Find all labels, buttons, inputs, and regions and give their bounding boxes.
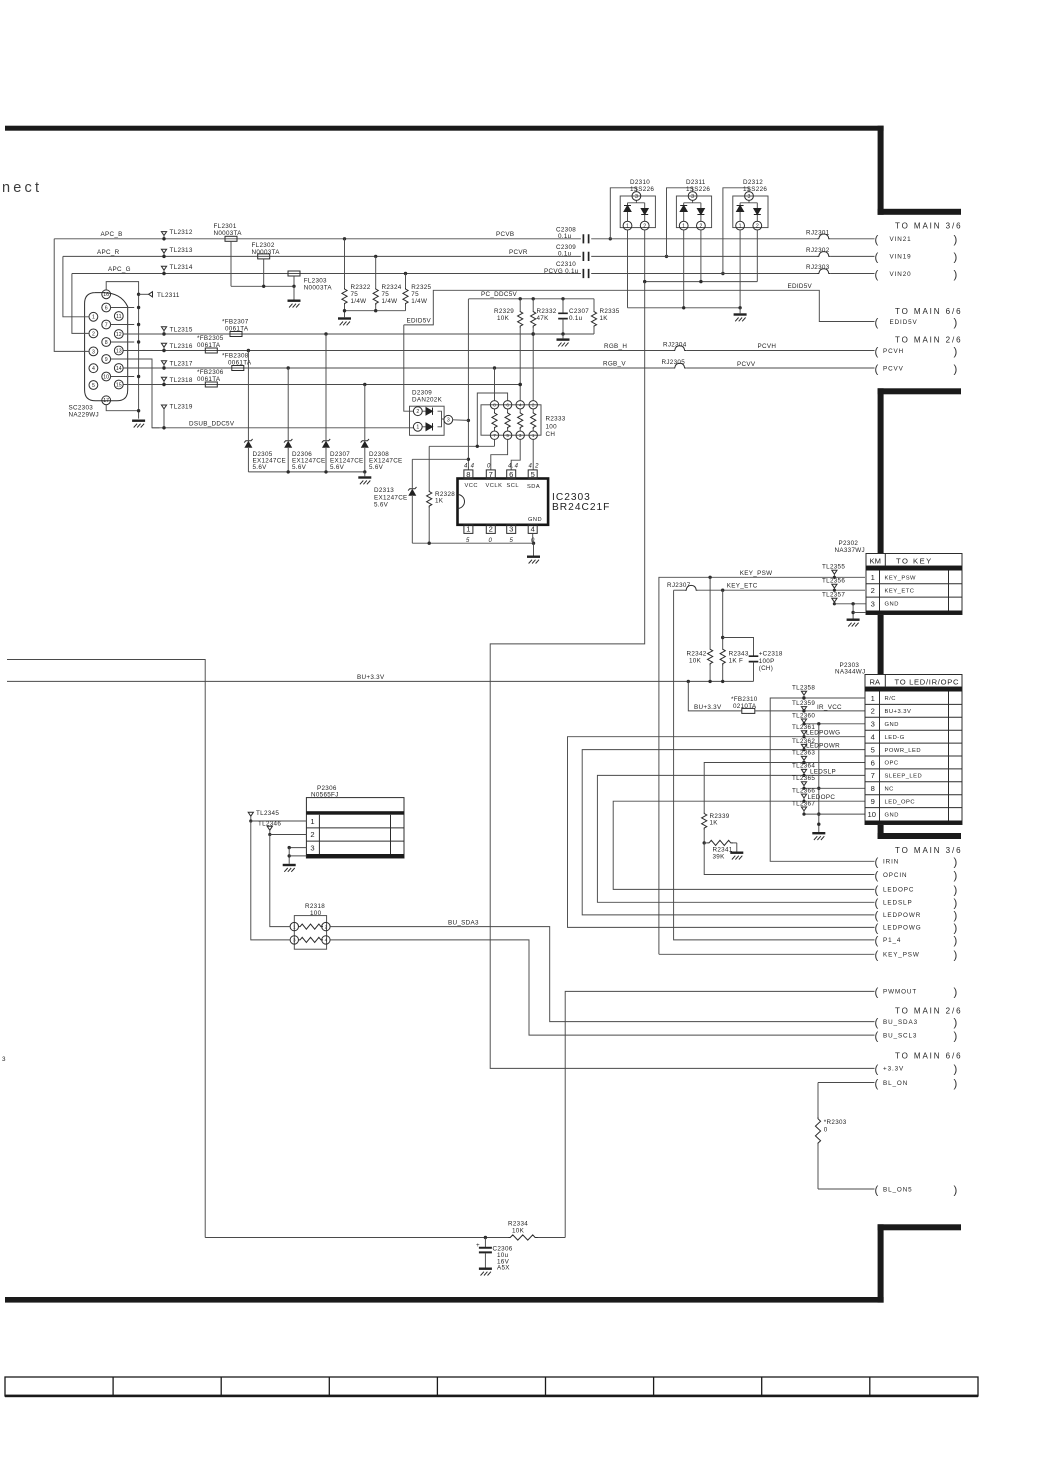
svg-text:*R2303: *R2303 [824, 1119, 847, 1126]
ferrite bead FB2307 0061TA [230, 332, 242, 337]
svg-text:TL2367: TL2367 [792, 800, 815, 807]
wire row pin13 RGB_H [123, 349, 673, 352]
svg-text:10: 10 [867, 810, 875, 819]
svg-text:4: 4 [92, 366, 95, 372]
svg-text:N0003TA: N0003TA [252, 249, 281, 256]
wire P2306 pin2 row [270, 834, 307, 836]
svg-text:(: ( [875, 910, 879, 922]
test point TL2315 [161, 327, 166, 336]
svg-text:CH: CH [546, 431, 556, 438]
svg-text:GND: GND [885, 812, 899, 818]
jumper RJ2304 [673, 346, 686, 351]
svg-text:1K: 1K [710, 820, 719, 827]
D-sub pin 7 [102, 320, 111, 329]
filter FL2301 N0003TA [225, 236, 237, 286]
wire FL common bus to ground [231, 285, 296, 300]
wire EDID5V drop to D2309 pin2 [404, 325, 414, 411]
capacitor C2309 0.1u (series in PCVR) [583, 252, 817, 261]
svg-text:TO MAIN 3/6: TO MAIN 3/6 [895, 221, 962, 230]
IC2303 pin 4 [528, 525, 537, 534]
ground (R2322) [338, 317, 351, 325]
test point TL2365 [801, 782, 806, 790]
node EDID5V stub [875, 317, 958, 329]
svg-text:TL2316: TL2316 [170, 343, 193, 350]
svg-text:1: 1 [92, 315, 95, 321]
node LEDPOWR stub [875, 910, 958, 922]
svg-text:LEDPOWG: LEDPOWG [883, 925, 922, 932]
node PCVH stub [875, 346, 958, 358]
svg-text:1/4W: 1/4W [411, 298, 427, 305]
ground (C2307) [557, 338, 570, 346]
connector P2302 NA337WJ (TO KEY table) [866, 554, 962, 615]
wire KEY_PSW [659, 576, 865, 955]
resistor R2325 75 1/4W [403, 274, 408, 311]
svg-text:RGB_H: RGB_H [604, 343, 627, 350]
wire R2333 col3 bottom to IC pin6 [511, 439, 520, 470]
capacitor C2308 0.1u (series in PCVB) [583, 234, 817, 243]
svg-text:2: 2 [756, 223, 759, 229]
svg-text:VCC: VCC [465, 483, 479, 489]
capacitor C2307 0.1u [558, 299, 568, 334]
svg-text:RJ2303: RJ2303 [806, 264, 830, 271]
wire R2334 row [205, 1236, 565, 1239]
svg-text:N0003TA: N0003TA [304, 284, 333, 291]
svg-text:100P: 100P [759, 658, 775, 665]
svg-text:4: 4 [531, 525, 535, 534]
node VIN20 stub [875, 269, 958, 281]
test point TL2360 [801, 719, 806, 725]
svg-text:11: 11 [116, 314, 121, 320]
svg-text:5.6V: 5.6V [374, 502, 389, 509]
svg-text:R2342: R2342 [687, 651, 707, 658]
wire D2312 pin3 loop to PCVG [723, 188, 749, 274]
wire RJ2303 to VIN20 stub [830, 273, 874, 275]
test point TL2366 [801, 794, 806, 803]
svg-text:BU+3.3V: BU+3.3V [357, 674, 385, 681]
wire LEDOPC loop (P2303 pin9 to stub) [613, 801, 874, 889]
IC2303 pin voltage annotations (top) [464, 463, 539, 469]
ground (FL filters) [288, 300, 301, 308]
wire zener bottom tie [248, 470, 366, 476]
D-sub connector SC2303 shell outline [85, 293, 128, 401]
svg-text:5: 5 [506, 433, 509, 438]
zener D2305 EX1247CE 5.6V [244, 351, 252, 472]
IC2303 pin 5 [528, 470, 537, 479]
svg-text:VIN21: VIN21 [890, 236, 912, 243]
svg-text:8: 8 [466, 470, 470, 479]
svg-text:(: ( [875, 1184, 879, 1196]
test point TL2361 [801, 731, 806, 739]
test point TL2357 [832, 598, 837, 605]
svg-text:EX1247CE: EX1247CE [374, 495, 408, 502]
svg-text:(CH): (CH) [759, 665, 774, 672]
D-sub pin 2 [89, 329, 98, 338]
svg-text:): ) [954, 923, 958, 935]
resistor R2303 0 [815, 1083, 820, 1190]
svg-text:6: 6 [871, 758, 875, 767]
R2333 pin 8 (top) [490, 401, 498, 409]
sheet frame right vertical (mid, above TO KEY table) [878, 388, 884, 553]
R2318 pin 1 [290, 922, 298, 930]
svg-text:TL2362: TL2362 [792, 738, 815, 745]
svg-text:(: ( [875, 252, 879, 264]
svg-text:3: 3 [748, 194, 751, 200]
resistor R2343 1K F [720, 590, 725, 681]
D-sub pin 16 [102, 290, 111, 299]
svg-text:BR24C21F: BR24C21F [552, 502, 610, 513]
svg-text:R2318: R2318 [305, 903, 325, 910]
svg-text:0061TA: 0061TA [197, 376, 221, 383]
svg-text:PCVR: PCVR [509, 249, 528, 256]
test point TL2314 [161, 266, 166, 275]
svg-text:13: 13 [116, 348, 122, 354]
svg-text:1K F: 1K F [729, 658, 744, 665]
svg-text:TL2359: TL2359 [792, 700, 815, 707]
wire D2309 pin3 to VCC rail [453, 419, 469, 422]
svg-text:PCVV: PCVV [883, 365, 904, 372]
svg-text:7: 7 [493, 433, 496, 438]
svg-text:(: ( [875, 346, 879, 358]
svg-text:TL2356: TL2356 [822, 578, 845, 585]
svg-text:(: ( [875, 234, 879, 246]
node VIN21 stub [875, 234, 958, 246]
svg-text:OPC: OPC [885, 761, 899, 767]
svg-text:3: 3 [310, 843, 314, 852]
svg-text:KEY_ETC: KEY_ETC [885, 589, 915, 595]
svg-text:BU_SDA3: BU_SDA3 [883, 1019, 918, 1026]
sheet frame right vertical (top) [878, 126, 884, 215]
svg-text:TL2319: TL2319 [170, 404, 193, 411]
svg-text:(: ( [875, 950, 879, 962]
R2333 pin 3 (bottom) [516, 431, 524, 439]
svg-text:1: 1 [293, 924, 296, 929]
svg-text:KEY_PSW: KEY_PSW [885, 576, 917, 582]
svg-text:): ) [954, 910, 958, 922]
svg-text:POWR_LED: POWR_LED [885, 748, 922, 754]
wire PCVH to connector stub [686, 350, 874, 352]
sheet frame bottom thick bar [5, 1297, 884, 1303]
svg-text:1/4W: 1/4W [382, 298, 398, 305]
svg-text:PCVH: PCVH [758, 343, 777, 350]
svg-text:0061TA: 0061TA [197, 342, 221, 349]
node IRIN stub [875, 857, 958, 869]
svg-text:BU+3.3V: BU+3.3V [694, 704, 722, 711]
svg-text:D2313: D2313 [374, 487, 394, 494]
svg-text:TL2345: TL2345 [256, 810, 279, 817]
svg-text:1: 1 [739, 223, 742, 229]
svg-text:+: + [476, 1242, 480, 1249]
wire IC2303 pin4 GND stub [532, 533, 534, 543]
D-sub pin 8 [102, 338, 111, 347]
R2333 pin 1 (bottom) [529, 431, 537, 439]
jumper RJ2305 [673, 363, 686, 368]
svg-text:5: 5 [466, 538, 470, 544]
svg-text:BL_ON5: BL_ON5 [883, 1186, 913, 1193]
wire IR_VCC row to P2303 pin2 [755, 709, 865, 712]
svg-text:(: ( [875, 935, 879, 947]
svg-text:DAN202K: DAN202K [412, 397, 443, 404]
ground (C2306) [479, 1268, 492, 1276]
ferrite bead FB2305 0061TA [205, 348, 217, 353]
wire GND tie under IC2303 [412, 542, 535, 556]
ferrite bead FB2310 0210TA [742, 708, 755, 713]
svg-text:TL2355: TL2355 [822, 564, 845, 571]
svg-text:APC_G: APC_G [108, 266, 131, 273]
wire P1_4 (KEY_ETC to stub) [674, 590, 875, 940]
IC U IC2303 BR24C21F (EEPROM) [458, 479, 549, 525]
svg-text:5: 5 [871, 745, 875, 754]
R2333 pin 7 (bottom) [490, 431, 498, 439]
wire APC_R / PCVR row [63, 255, 668, 258]
svg-text:100: 100 [310, 910, 322, 917]
svg-text:APC_B: APC_B [101, 231, 123, 238]
wire GND row (P2303 pin10) [804, 813, 865, 815]
node PWMOUT stub [875, 987, 958, 999]
wire P2302 pin3 GND [834, 602, 866, 618]
svg-text:TL2312: TL2312 [170, 229, 193, 236]
IC2303 pin 1 [464, 525, 473, 534]
svg-text:2: 2 [325, 924, 328, 929]
svg-text:1: 1 [682, 223, 685, 229]
resistor R2329 10K [518, 299, 523, 401]
D-sub pin 13 [114, 346, 123, 355]
svg-text:VCLK: VCLK [486, 483, 503, 489]
ground (P2303 GND) [812, 832, 825, 840]
svg-text:0: 0 [487, 463, 491, 469]
zener D2306 EX1247CE 5.6V [284, 368, 292, 472]
svg-text:5.6V: 5.6V [369, 464, 384, 471]
ground (P2306) [283, 864, 296, 872]
wire APC_G / PCVG row [72, 272, 725, 275]
node LEDPOWG stub [875, 923, 958, 935]
svg-text:0: 0 [824, 1127, 828, 1134]
svg-text:3: 3 [871, 599, 875, 608]
wire LEDSLP loop (P2303 pin7 to stub) [597, 775, 874, 902]
diode D2309 DAN202K (dual diode) [410, 406, 445, 435]
svg-text:2: 2 [532, 402, 535, 407]
node P1_4 stub [875, 935, 958, 947]
svg-text:GND: GND [885, 722, 899, 728]
svg-text:TL2361: TL2361 [792, 724, 815, 731]
svg-text:EDID5V: EDID5V [788, 283, 813, 290]
svg-text:1: 1 [416, 425, 419, 431]
ground (P2302) [847, 619, 860, 627]
svg-text:TL2318: TL2318 [170, 377, 193, 384]
svg-text:RGB_V: RGB_V [603, 360, 626, 367]
svg-text:): ) [954, 1017, 958, 1029]
svg-text:3: 3 [447, 418, 450, 424]
wire PWMOUT run [565, 991, 874, 1237]
test point TL2345 [248, 812, 253, 822]
svg-text:(: ( [875, 1064, 879, 1076]
diode D2310 1SS226 (dual diode pack) [620, 196, 655, 228]
svg-text:17: 17 [103, 398, 109, 404]
resistor network R2318 100 [294, 916, 326, 950]
R2318 pin 3 [290, 936, 298, 944]
svg-text:6: 6 [506, 402, 509, 407]
svg-text:2: 2 [489, 525, 493, 534]
wire R2333 col4 bottom to IC pin5 [532, 439, 534, 470]
node LEDSLP stub [875, 898, 958, 910]
svg-text:RJ2302: RJ2302 [806, 247, 830, 254]
svg-text:): ) [954, 870, 958, 882]
D-sub pin 4 [89, 364, 98, 373]
svg-text:P1_4: P1_4 [883, 937, 901, 944]
svg-text:): ) [954, 1078, 958, 1090]
svg-text:R2329: R2329 [494, 308, 514, 315]
wire node A tie (R2328 / R2333 pins) [429, 439, 494, 448]
svg-text:R2335: R2335 [600, 308, 620, 315]
ground (IC2303) [527, 556, 540, 564]
test point TL2317 [161, 361, 166, 370]
svg-text:9: 9 [871, 797, 875, 806]
svg-text:TL2363: TL2363 [792, 750, 815, 757]
ferrite bead FB2306 0061TA [205, 382, 217, 387]
wire R2333 col2 bottom to IC pin7 [491, 439, 508, 470]
svg-text:1: 1 [310, 817, 314, 826]
svg-text:RJ2305: RJ2305 [662, 359, 686, 366]
svg-text:EDID5V: EDID5V [890, 319, 918, 326]
sheet frame top thick bar [5, 126, 884, 131]
svg-text:(: ( [875, 1017, 879, 1029]
svg-text:RJ2304: RJ2304 [663, 341, 687, 348]
wire RJ2302 to VIN19 stub [830, 255, 874, 257]
svg-text:3: 3 [509, 525, 513, 534]
node OPCIN stub [875, 870, 958, 882]
sheet frame notch bar 3 [878, 833, 961, 839]
svg-text:): ) [954, 857, 958, 869]
D-sub pin 9 [102, 355, 111, 364]
svg-text:12: 12 [116, 332, 122, 338]
svg-text:2: 2 [643, 223, 646, 229]
svg-text:(: ( [875, 870, 879, 882]
svg-text:TO MAIN 3/6: TO MAIN 3/6 [895, 846, 962, 855]
wire row pin14 RGB_V [123, 366, 673, 369]
svg-text:R2324: R2324 [382, 284, 402, 291]
wire BL_ON to R2303 [818, 1082, 875, 1084]
svg-text:TL2317: TL2317 [170, 361, 193, 368]
IC2303 pin 2 [486, 525, 495, 534]
test point TL2358 [801, 691, 806, 699]
node BL_ON stub [875, 1078, 958, 1090]
wire APC_G corner to D-sub pin 2 [72, 274, 89, 334]
svg-text:1/4W: 1/4W [351, 298, 367, 305]
svg-text:3: 3 [519, 433, 522, 438]
svg-text:LED_OPC: LED_OPC [885, 799, 916, 805]
svg-text:PC_DDC5V: PC_DDC5V [481, 291, 517, 298]
wire BU+3.3V drop to FB2310 [688, 681, 741, 711]
ground (zeners) [358, 476, 371, 484]
svg-text:1: 1 [626, 223, 629, 229]
wire BU_SDA3 (R2318 pin2 to stub) [330, 927, 874, 1022]
test point TL2316 [161, 343, 166, 352]
svg-text:(: ( [875, 1030, 879, 1042]
svg-text:1: 1 [871, 573, 875, 582]
ground (diode packs) [734, 313, 747, 321]
svg-text:BU_SDA3: BU_SDA3 [448, 919, 479, 926]
bottom title-block strip [5, 1377, 978, 1397]
wire APC_B from net label to D-sub pin 3 [54, 239, 89, 352]
svg-text:0061TA: 0061TA [225, 325, 249, 332]
wire D2310/11/12 pin2 tie (+3.3V net) [643, 230, 757, 283]
svg-text:NA344WJ: NA344WJ [835, 669, 865, 676]
svg-text:3: 3 [92, 349, 95, 355]
svg-text:): ) [954, 898, 958, 910]
wire C2307/R2335 bottom tie [533, 332, 594, 338]
svg-text:2: 2 [92, 331, 95, 337]
svg-text:9: 9 [105, 357, 108, 363]
wire PCVV to connector stub [686, 367, 874, 369]
svg-text:): ) [954, 885, 958, 897]
svg-text:TO LED/IR/OPC: TO LED/IR/OPC [895, 677, 960, 686]
wire net A (left rail to R2334) [7, 660, 205, 1238]
wire APC_R corner to D-sub pin 1 [63, 256, 89, 316]
svg-text:7: 7 [105, 322, 108, 328]
node LEDOPC stub [875, 885, 958, 897]
wire R2322/R2324/R2325 bottom tie [343, 309, 406, 317]
IC2303 pin voltage annotations (bottom) [466, 538, 535, 544]
svg-text:10K: 10K [689, 658, 702, 665]
svg-text:VIN19: VIN19 [890, 254, 912, 261]
svg-text:): ) [954, 234, 958, 246]
svg-text:2: 2 [310, 830, 314, 839]
svg-text:nect: nect [2, 180, 42, 196]
svg-text:3: 3 [293, 938, 296, 943]
svg-text:(: ( [875, 363, 879, 375]
capacitor C2310 0.1u (series in PCVG) [583, 269, 817, 278]
svg-text:GND: GND [528, 517, 542, 523]
svg-text:100: 100 [546, 424, 558, 431]
svg-text:TL2346: TL2346 [258, 820, 281, 827]
svg-text:3: 3 [871, 720, 875, 729]
svg-text:10K: 10K [512, 1227, 525, 1234]
resistor R2341 39K [703, 840, 737, 851]
svg-text:3: 3 [635, 194, 638, 200]
wire LEDPOWR loop (P2303 pin5 to stub) [582, 750, 874, 915]
svg-text:0.1u: 0.1u [558, 251, 572, 258]
svg-text:TL2314: TL2314 [170, 264, 193, 271]
svg-text:(: ( [875, 923, 879, 935]
svg-text:R2325: R2325 [411, 284, 431, 291]
svg-text:KM: KM [870, 556, 881, 565]
R2333 pin 2 (top) [529, 401, 537, 409]
wire BL_ON5 to stub [818, 1188, 875, 1190]
svg-text:5: 5 [92, 383, 95, 389]
R2318 pin 2 [322, 922, 330, 930]
wire row pin15 / TL2318 (to R2329 bottom) [123, 383, 522, 386]
test point TL2356 [832, 584, 837, 592]
svg-text:7: 7 [871, 771, 875, 780]
svg-text:4: 4 [871, 733, 875, 742]
wire R2333 col1 top to RGB_V [494, 368, 496, 401]
svg-text:LED-G: LED-G [885, 735, 905, 741]
connector P2303 NA344WJ (TO LED/IR/OPC table) [865, 675, 962, 825]
svg-text:R2343: R2343 [729, 651, 749, 658]
wire D2310/11/12 pin1 ground tie [628, 230, 742, 313]
svg-text:TL2313: TL2313 [170, 247, 193, 254]
svg-text:2: 2 [871, 586, 875, 595]
svg-text:3: 3 [2, 1056, 6, 1063]
svg-text:0.1u: 0.1u [558, 233, 572, 240]
svg-text:R2332: R2332 [537, 308, 557, 315]
resistor R2342 10K [707, 577, 712, 681]
svg-text:KEY_PSW: KEY_PSW [883, 952, 920, 959]
capacitor C2318 100P (CH) [723, 638, 759, 682]
test point TL2318 [161, 377, 166, 386]
filter FL2302 N0003TA [258, 254, 270, 286]
svg-text:0.1u: 0.1u [569, 315, 583, 322]
svg-text:75: 75 [351, 291, 359, 298]
